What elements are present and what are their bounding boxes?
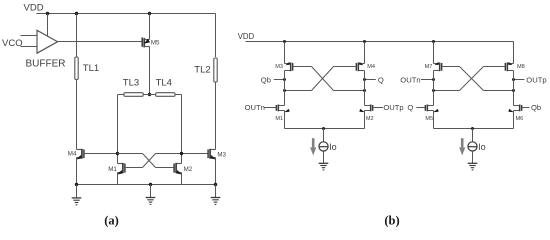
wire VCO input upper [21,35,38,37]
wire cross lower right cell2 (b) [484,90,514,92]
junction dot rail B1 [283,40,286,43]
svg-text:(a): (a) [104,213,119,227]
transistor M2 [174,163,182,175]
wire TL3 left corner [118,95,124,164]
svg-text:OUTp: OUTp [526,75,546,84]
svg-text:BUFFER: BUFFER [26,58,66,69]
net label OUTp cell2 (b) [526,75,546,84]
ground left (a) [72,185,82,205]
wire TL4 right corner [175,95,182,164]
wire M5 drain [149,14,151,40]
wire cross-couple diag 2 (a) [143,154,156,168]
wire cross lower right cell1 (b) [334,90,365,92]
svg-text:TL3: TL3 [123,77,139,88]
wire M6 gate to Qb cell2 (b) [522,107,530,109]
transistor M5 cell2 (b) [425,105,438,113]
label Io cell1 (b) [329,142,337,152]
svg-text:Q: Q [407,103,413,112]
svg-text:(b): (b) [384,213,399,227]
wire OUTn to M1 gate cell1 (b) [264,107,277,109]
net label VCO [2,38,23,49]
label M4 cell1 (b) [367,64,375,70]
svg-text:M5: M5 [425,116,433,122]
wire VCO input lower [21,46,38,48]
net label Q cell1 (b) [378,75,384,84]
wire M2 gate to OUTp cell1 (b) [373,107,383,109]
svg-text:VCO: VCO [2,38,23,49]
ground tail cell2 (b) [468,163,478,170]
svg-text:VDD: VDD [238,32,255,41]
transistor M3 [208,149,216,160]
label M7 cell2 (b) [425,64,433,70]
svg-text:M1: M1 [275,116,283,122]
wire cross-couple diag 1 (a) [143,154,156,168]
wire buffer output to M5 gate [58,41,143,43]
net label Qb cell1 (b) [261,75,271,84]
transistor M4 cell1 (b) [356,62,364,71]
wire OUTp tap cell2 (b) [514,79,525,81]
transmission line TL1 [75,57,78,80]
wire cross-couple top right (a) [156,153,209,155]
label M5 cell2 (b) [425,116,433,122]
wire branch right M8 drain cell2 (b) [513,42,515,64]
svg-text:M3: M3 [275,64,283,70]
current source Io cell1 (b) [319,129,328,164]
svg-text:M2: M2 [366,116,374,122]
wire OUTn tap cell2 (b) [421,79,434,81]
wire branch left M7 drain cell2 (b) [433,42,435,64]
transistor M2 cell1 (b) [359,105,372,113]
junction dot rail B3 [432,40,435,43]
wire M4 source down [76,158,78,185]
net label VDD (b) [238,32,255,41]
wire M2 gate segment [156,167,175,169]
label M3 [217,152,226,159]
wire Q to M5 gate cell2 (b) [416,107,425,109]
junction dot OUTn cell2 (b) [432,78,435,81]
wire M2 source down [181,173,183,185]
label M3 cell1 (b) [275,64,283,70]
wire VDD rail (b) [246,41,514,43]
wire branch right mid cell2 (b) [513,71,515,106]
svg-text:M8: M8 [517,64,525,70]
wire M1 source down [117,173,119,185]
svg-text:OUTp: OUTp [383,103,403,112]
svg-text:M6: M6 [516,116,524,122]
wire M3 gate to cross cell1 (b) [293,66,312,68]
net label OUTn cell2 (b) [400,75,420,84]
junction dot bottom right (a) [214,183,217,186]
label TL2 [194,64,210,75]
label TL3 [123,77,139,88]
wire TL2 to M3 drain [215,82,217,150]
label BUFFER [26,58,66,69]
wire M3 source down [215,158,217,185]
wire Qb tap cell1 (b) [274,79,285,81]
junction dot tail cell1 (b) [322,127,325,130]
current source Io cell2 (b) [468,129,477,164]
wire branch right mid cell1 (b) [364,71,366,106]
wire tail left cell2 (b) [434,111,473,129]
svg-text:M4: M4 [68,151,77,158]
wire branch left mid cell2 (b) [433,71,435,106]
svg-text:Qb: Qb [531,103,541,112]
transistor M1 [117,163,125,175]
junction dot bottom left (a) [75,183,78,186]
transistor M8 cell2 (b) [505,62,513,71]
svg-text:M2: M2 [184,166,193,173]
svg-text:M3: M3 [217,152,226,159]
label Io cell2 (b) [478,142,486,152]
junction dot bottom centre (a) [149,183,152,186]
junction dot M5 drain [148,12,151,15]
svg-text:TL1: TL1 [83,63,99,74]
wire TL3 to centre [143,94,156,96]
wire cross lower left cell1 (b) [285,90,312,92]
wire cross diag 2 (b) cell1 (b) [312,67,334,91]
wire M1 gate segment [125,167,143,169]
svg-text:M4: M4 [367,64,375,70]
wire VDD rail (a) [37,13,216,15]
svg-text:TL2: TL2 [194,64,210,75]
svg-text:Io: Io [329,142,337,152]
wire TL2 top branch [215,14,217,58]
svg-text:Qb: Qb [261,75,271,84]
ground tail cell1 (b) [319,163,329,170]
caption (b) [384,213,399,227]
junction dot TL3/TL4 centre [148,93,151,96]
wire branch left M3 drain cell1 (b) [284,42,286,64]
wire M5 source to TL3/TL4 junction [149,47,151,95]
wire cross-couple top left (a) [118,153,143,155]
wire M8 gate to cross cell2 (b) [484,66,506,68]
transistor M3 cell1 (b) [285,62,293,71]
wire M7 gate to cross cell2 (b) [442,66,460,68]
wire cross lower left cell2 (b) [434,90,460,92]
wire TL1 top branch [76,14,78,58]
junction dot M2 drain node [180,152,183,155]
transmission line TL4 [156,93,175,97]
current direction arrow cell2 (b) [459,138,465,155]
junction dot cross right cell1 (b) [363,89,366,92]
transmission line TL3 [124,93,143,97]
wire cross diag 1 (b) cell1 (b) [312,67,334,91]
wire TL1 to M4 drain [76,80,78,150]
junction dot M1 drain node [116,152,119,155]
junction dot cross right cell2 (b) [512,89,515,92]
transistor M6 cell2 (b) [508,105,521,113]
junction dot Q cell1 (b) [363,78,366,81]
label M6 cell2 (b) [516,116,524,122]
wire tail right cell2 (b) [473,111,514,129]
junction dot cross left cell2 (b) [432,89,435,92]
svg-text:Io: Io [478,142,486,152]
label M4 [68,151,77,158]
wire M4 gate to node [84,153,118,155]
wire Q tap cell1 (b) [365,79,376,81]
svg-text:M5: M5 [151,40,160,47]
transistor M5 [142,37,150,47]
net label OUTp cell1 (b) [383,103,403,112]
current direction arrow cell1 (b) [310,138,316,155]
transistor M4 [76,149,84,160]
label M8 cell2 (b) [517,64,525,70]
op-amp U1 buffer [37,30,58,53]
svg-text:OUTn: OUTn [245,103,265,112]
svg-text:VDD: VDD [24,3,44,14]
net label Q cell2 (b) [407,103,413,112]
svg-text:OUTn: OUTn [400,75,420,84]
junction dot OUTp cell2 (b) [512,78,515,81]
label M1 cell1 (b) [275,116,283,122]
label M2 [184,166,193,173]
wire cross diag 2 (b) cell2 (b) [460,67,484,91]
wire branch right M4 drain cell1 (b) [364,42,366,64]
caption (a) [104,213,119,227]
junction dot buffer supply [46,12,49,15]
ground centre (a) [146,185,156,205]
label TL4 [156,77,172,88]
wire branch left mid cell1 (b) [284,71,286,106]
wire bottom rail (a) [77,184,216,186]
label M1 [108,166,117,173]
wire cross diag 1 (b) cell2 (b) [460,67,484,91]
svg-text:M1: M1 [108,166,117,173]
junction dot cross left cell1 (b) [283,89,286,92]
wire tail left cell1 (b) [285,111,324,129]
svg-text:TL4: TL4 [156,77,172,88]
transistor M1 cell1 (b) [276,105,289,113]
label M5 [151,40,160,47]
net label OUTn cell1 (b) [245,103,265,112]
junction dot tail cell2 (b) [471,127,474,130]
label M2 cell1 (b) [366,116,374,122]
ground right (a) [211,185,221,205]
wire buffer supply drop [47,14,49,37]
net label VDD (a) [24,3,44,14]
junction dot rail B2 [363,40,366,43]
wire M4 gate to cross cell1 (b) [334,66,357,68]
junction dot Qb cell1 (b) [283,78,286,81]
label TL1 [83,63,99,74]
transistor M7 cell2 (b) [434,62,442,71]
svg-text:M7: M7 [425,64,433,70]
wire tail right cell1 (b) [324,111,365,129]
net label Qb cell2 (b) [531,103,541,112]
svg-text:Q: Q [378,75,384,84]
transmission line TL2 [214,58,217,82]
junction dot TL1 top [75,12,78,15]
